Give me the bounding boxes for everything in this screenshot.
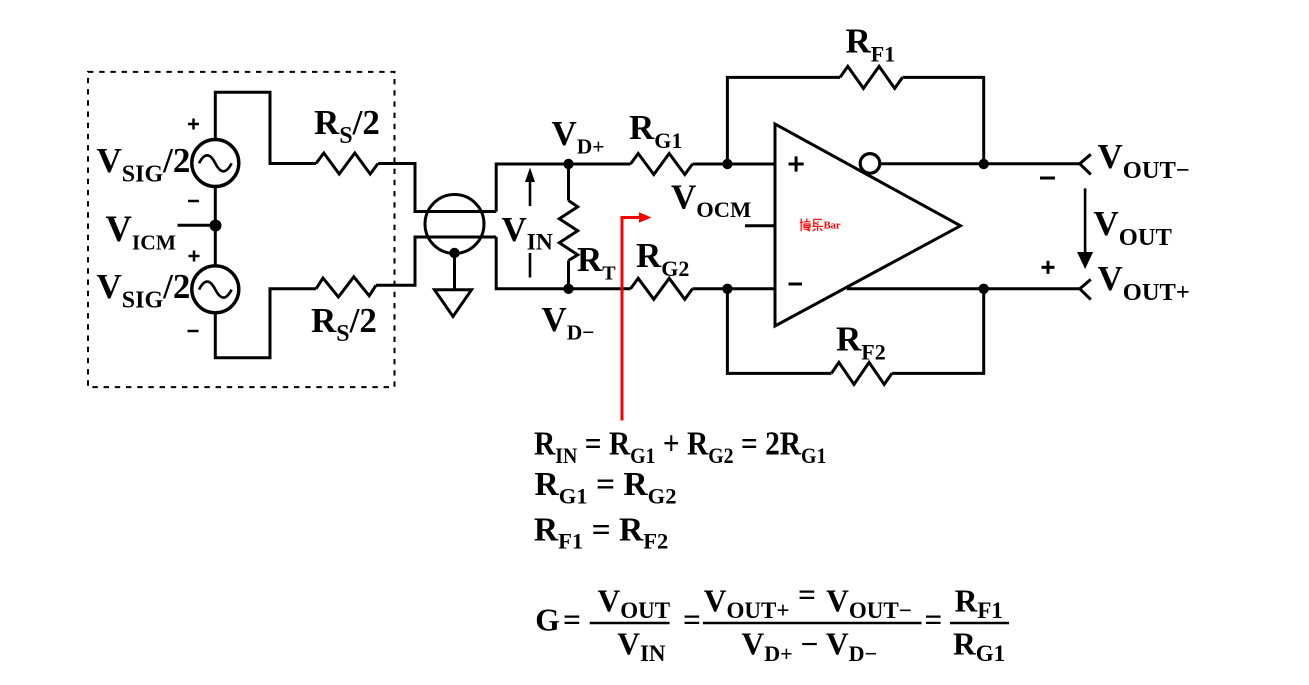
fraction 2 bar [703,622,922,624]
V_OCM pin wire [745,224,775,227]
svg-text:=: = [924,603,942,638]
plus mark bottom output [1042,261,1055,274]
V_IN arrow annotation [525,168,535,278]
node bottom output dot [979,284,989,294]
common-mode source symbol (circle with two chords) [415,195,496,254]
wire RS/2 bottom to balun [376,237,496,285]
wire RF2 to output [892,289,984,374]
svg-text:=: = [563,603,581,638]
node top output dot [979,159,989,169]
minus mark bottom source [188,330,199,333]
wire to ground [453,253,456,290]
dashed source box [88,72,395,387]
wire top source loop [215,92,316,163]
svg-text:=: = [798,578,816,613]
minus mark top source [188,200,199,203]
wire RG2 to opamp [693,287,776,290]
feedback RF2 loop wires [727,289,831,374]
V_OUT arrow [1077,188,1093,269]
op-amp - input mark [789,283,803,286]
resistor RF2 [831,362,891,384]
resistor RG2 [631,278,693,299]
resistor RT vertical [559,164,577,289]
resistor RS/2 top [316,153,378,174]
wire bottom output [847,287,1080,290]
svg-text:RIN = RG1 + RG2 = 2RG1: RIN = RG1 + RG2 = 2RG1 [534,425,826,468]
output inversion bubble [860,154,880,174]
resistor RG1 [631,154,693,175]
wire RS/2 top to balun [378,164,496,212]
source V_SIG/2 top [192,140,239,187]
node V_D- dot [563,284,573,294]
svg-text:Bar: Bar [824,220,841,231]
node + input junction dot [722,159,732,169]
red annotation arrow [622,212,652,420]
ground [435,290,472,317]
minus mark top output [1040,177,1055,180]
node V_D+ dot [563,159,573,169]
node - input junction dot [722,284,732,294]
feedback RF1 loop wires [727,77,840,164]
plus mark top source [188,119,199,130]
V_ICM stub wire [178,224,212,227]
plus mark bottom source [189,251,200,262]
fraction 1 bar [590,622,670,624]
wire balun to V_D+ rail [496,164,630,212]
resistor RF1 [840,66,903,88]
svg-text:G: G [535,603,560,638]
svg-text:=: = [683,603,701,638]
bottom output chevron terminal [1080,279,1091,299]
op-amp + input mark [789,156,804,171]
op-amp U1 triangle [775,124,961,326]
top output chevron terminal [1080,154,1091,174]
wire top output [879,162,1079,165]
wire balun to V_D- rail [496,237,630,289]
resistor RS/2 bottom [316,277,376,297]
wire bottom source loop [215,289,316,358]
fraction 3 bar [950,622,1009,624]
watermark [800,218,823,231]
junction dot below circle [449,248,459,258]
node V_ICM junction dot [210,220,222,232]
wire RG1 to opamp [693,163,776,166]
source V_SIG/2 bottom [192,266,239,313]
wire between sources [214,187,217,266]
wire RF1 to output [903,77,984,164]
